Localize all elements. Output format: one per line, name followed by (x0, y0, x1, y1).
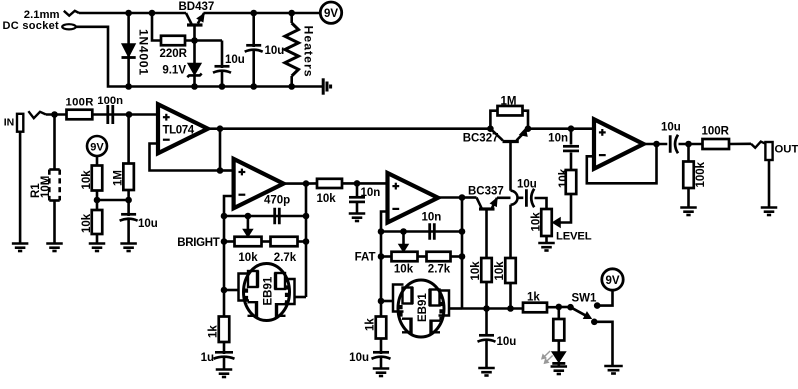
svg-text:2.7k: 2.7k (428, 264, 451, 276)
svg-text:10n: 10n (361, 187, 381, 199)
svg-text:10k: 10k (494, 261, 506, 281)
svg-text:10u: 10u (349, 352, 369, 364)
svg-text:9V: 9V (605, 275, 619, 287)
svg-text:10k: 10k (317, 193, 337, 205)
svg-text:BD437: BD437 (179, 1, 215, 13)
svg-text:10u: 10u (517, 179, 537, 191)
svg-text:10u: 10u (497, 336, 517, 348)
svg-text:100n: 100n (97, 95, 123, 107)
svg-text:10k: 10k (394, 264, 414, 276)
svg-text:10u: 10u (265, 45, 285, 57)
svg-text:1u: 1u (201, 352, 214, 364)
svg-text:10n: 10n (422, 212, 442, 224)
svg-text:1M: 1M (113, 170, 125, 186)
svg-text:10k: 10k (558, 168, 570, 188)
svg-text:10u: 10u (225, 54, 245, 66)
svg-text:2.7k: 2.7k (274, 252, 297, 264)
svg-text:10k: 10k (81, 170, 93, 190)
svg-text:10n: 10n (548, 133, 568, 145)
svg-text:10k: 10k (531, 212, 543, 232)
svg-text:1k: 1k (208, 325, 220, 338)
svg-text:10u: 10u (138, 218, 158, 230)
svg-text:1N4001: 1N4001 (136, 29, 150, 76)
svg-text:Heaters: Heaters (302, 26, 316, 78)
svg-text:100k: 100k (695, 161, 707, 187)
svg-text:TL074: TL074 (163, 125, 195, 137)
svg-text:10M: 10M (40, 176, 52, 198)
svg-text:BRIGHT: BRIGHT (177, 237, 220, 249)
svg-text:OUT: OUT (775, 144, 798, 156)
svg-text:220R: 220R (160, 48, 188, 60)
svg-text:BC337: BC337 (468, 186, 504, 198)
svg-text:EB91: EB91 (263, 276, 275, 305)
svg-text:100R: 100R (702, 126, 730, 138)
svg-text:LEVEL: LEVEL (556, 231, 592, 243)
svg-text:IN: IN (4, 117, 15, 129)
svg-text:9V: 9V (324, 8, 338, 20)
svg-text:SW1: SW1 (572, 293, 598, 305)
svg-text:EB91: EB91 (417, 293, 429, 322)
svg-text:FAT: FAT (355, 252, 376, 264)
svg-text:10k: 10k (470, 261, 482, 281)
svg-text:10k: 10k (81, 213, 93, 233)
svg-text:470p: 470p (264, 195, 290, 207)
svg-text:1k: 1k (365, 318, 377, 331)
svg-text:100R: 100R (66, 97, 94, 109)
svg-text:1k: 1k (527, 291, 540, 303)
svg-text:DC socket: DC socket (3, 20, 60, 32)
svg-text:BC327: BC327 (463, 133, 499, 145)
svg-text:10u: 10u (661, 122, 681, 134)
svg-text:1M: 1M (501, 96, 517, 108)
svg-text:10k: 10k (238, 252, 258, 264)
svg-text:9.1V: 9.1V (162, 65, 186, 77)
svg-text:9V: 9V (90, 141, 104, 153)
